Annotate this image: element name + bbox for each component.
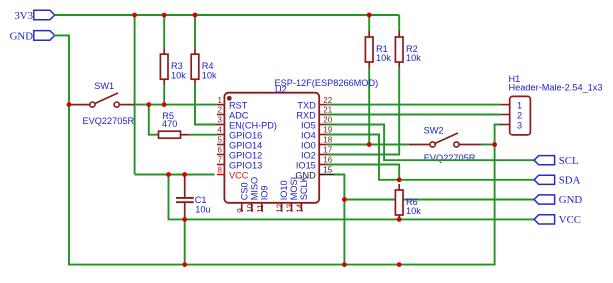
svg-text:9: 9 [236, 208, 245, 213]
wire 3V3 to VCC pin8 [135, 174, 215, 176]
svg-text:5: 5 [218, 136, 223, 145]
wire IO15 to SDA node [327, 165, 400, 180]
svg-text:GPIO16: GPIO16 [229, 130, 262, 140]
svg-text:11: 11 [256, 204, 265, 213]
port VCC [534, 214, 581, 226]
svg-text:RXD: RXD [296, 110, 316, 120]
svg-text:GPIO14: GPIO14 [229, 140, 262, 150]
wire SW1 to RST [135, 104, 217, 106]
svg-text:GPIO13: GPIO13 [229, 160, 262, 170]
wire GND flag to bottom rail [55, 35, 69, 264]
pin 19 IO4 [301, 126, 333, 141]
junction [342, 262, 347, 267]
pin 3 EN(CH-PD) [217, 116, 277, 131]
wire 3V3 rail [55, 14, 399, 16]
svg-text:3V3: 3V3 [14, 10, 33, 22]
junction [397, 262, 402, 267]
pin 22 TXD [297, 96, 332, 111]
wire R2 top [398, 15, 400, 31]
pin 4 GPIO16 [217, 126, 262, 141]
junction [397, 217, 402, 222]
svg-text:19: 19 [323, 126, 332, 135]
svg-text:470: 470 [162, 119, 177, 129]
svg-text:10u: 10u [195, 205, 210, 215]
port GND [534, 194, 582, 206]
junction [397, 177, 402, 182]
wire RXD to header pin2 [327, 114, 501, 116]
pin 7 GPIO13 [217, 156, 262, 171]
wire VCC row to VCC flag [169, 175, 535, 220]
svg-text:21: 21 [323, 106, 332, 115]
resistor R4 [191, 48, 217, 85]
svg-text:IO10: IO10 [279, 180, 289, 200]
svg-text:MISO: MISO [249, 177, 259, 200]
svg-text:TXD: TXD [297, 101, 316, 111]
svg-text:IO4: IO4 [301, 130, 316, 140]
switch SW1 [69, 81, 135, 126]
pin 9 CS0 [236, 182, 250, 212]
svg-text:3: 3 [517, 120, 522, 130]
header pin 3 [500, 120, 522, 130]
wire TXD to header pin1 [327, 104, 501, 106]
wire R1 bottom to IO0 [368, 68, 370, 145]
pin 6 GPIO12 [217, 146, 262, 161]
junction [367, 13, 372, 18]
junction [162, 13, 167, 18]
wire C1 node to bottom rail [184, 219, 186, 264]
pin 13 MOSI [286, 177, 300, 213]
pin 15 GND [295, 166, 332, 181]
svg-text:VCC: VCC [559, 214, 581, 226]
wire R2 bottom to IO2 [327, 68, 400, 155]
junction [342, 197, 347, 202]
wire bottom GND rail [69, 264, 495, 266]
wire R5 to GPIO16 [190, 134, 217, 136]
pin 11 IO9 [256, 185, 270, 212]
svg-text:20: 20 [323, 116, 332, 125]
wire IO4 to SDA [327, 135, 535, 180]
svg-text:10: 10 [246, 203, 255, 212]
svg-text:10k: 10k [406, 53, 421, 63]
svg-text:CS0: CS0 [239, 182, 249, 200]
svg-text:SCL: SCL [559, 155, 579, 167]
svg-text:10k: 10k [171, 70, 186, 80]
svg-text:IO5: IO5 [301, 120, 316, 130]
junction [67, 102, 72, 107]
connector H1 Header-Male-2.54_1x3 [509, 74, 603, 135]
svg-text:17: 17 [323, 146, 332, 155]
pin 21 RXD [296, 106, 332, 121]
op-amp U2 ESP-12F body [224, 78, 378, 203]
port GND [10, 30, 55, 42]
svg-text:15: 15 [323, 166, 332, 175]
wire R4 bottom to EN(CH-PD) [195, 85, 217, 124]
svg-text:14: 14 [296, 203, 305, 212]
svg-text:GND: GND [10, 30, 34, 42]
svg-text:10k: 10k [202, 70, 217, 80]
pin 2 ADC [217, 106, 249, 121]
svg-text:IO0: IO0 [301, 140, 316, 150]
svg-text:GND: GND [559, 194, 583, 206]
svg-text:22: 22 [323, 96, 332, 105]
svg-text:SDA: SDA [559, 175, 581, 187]
wire GND node to header pin3 [495, 125, 501, 265]
resistor R1 [365, 31, 391, 68]
switch SW2 [409, 126, 481, 164]
header pin 1 [500, 101, 522, 111]
junction [146, 102, 151, 107]
svg-text:2: 2 [517, 110, 522, 120]
wire RST to R5 [149, 105, 159, 135]
junction [182, 172, 187, 177]
svg-text:EVQ22705R: EVQ22705R [424, 153, 476, 163]
svg-text:IO15: IO15 [296, 160, 316, 170]
svg-text:13: 13 [286, 203, 295, 212]
svg-text:ESP-12F(ESP8266MOD): ESP-12F(ESP8266MOD) [275, 78, 379, 88]
junction [166, 172, 171, 177]
wire R3 top [163, 15, 165, 48]
resistor R5 470 [159, 111, 190, 138]
pin 18 IO0 [301, 136, 333, 151]
junction [182, 217, 187, 222]
svg-text:IO9: IO9 [259, 185, 269, 200]
svg-text:10k: 10k [406, 206, 421, 216]
svg-text:EVQ22705R: EVQ22705R [83, 116, 135, 126]
svg-text:RST: RST [229, 101, 248, 111]
wire R3 bottom to RST [163, 85, 165, 104]
pin 10 MISO [246, 177, 260, 213]
svg-text:10k: 10k [376, 53, 391, 63]
svg-text:VCC: VCC [229, 170, 249, 180]
svg-text:7: 7 [218, 156, 223, 165]
svg-text:6: 6 [218, 146, 223, 155]
port SDA [534, 175, 581, 187]
pin 1 RST [217, 96, 248, 111]
port 3V3 [14, 10, 54, 22]
wire 3V3 drop to VCC pin [134, 15, 136, 175]
svg-text:3: 3 [218, 116, 223, 125]
pin 8 VCC [217, 166, 249, 181]
pin 16 IO15 [296, 156, 333, 171]
wire SW2 to GND node [481, 144, 495, 146]
wire GND pin to bottom rail [335, 175, 344, 265]
svg-text:16: 16 [323, 156, 332, 165]
junction [193, 13, 198, 18]
junction [367, 142, 372, 147]
svg-text:4: 4 [218, 126, 223, 135]
svg-text:2: 2 [218, 106, 223, 115]
wire IO5 to SCL [327, 125, 535, 161]
pin 12 IO10 [276, 180, 290, 212]
svg-text:Header-Male-2.54_1x3: Header-Male-2.54_1x3 [509, 83, 603, 93]
svg-text:12: 12 [276, 203, 285, 212]
pin 17 IO2 [301, 146, 333, 161]
svg-text:SCLK: SCLK [299, 175, 309, 200]
svg-text:1: 1 [218, 96, 223, 105]
junction [162, 102, 167, 107]
pin 14 SCLK [296, 175, 310, 212]
wire GND pin stub ext [327, 174, 336, 176]
svg-text:1: 1 [517, 101, 522, 111]
svg-text:18: 18 [323, 136, 332, 145]
wire GND row to GND flag [344, 199, 534, 201]
pin 5 GPIO14 [217, 136, 262, 151]
header pin 2 [500, 110, 522, 120]
svg-text:ADC: ADC [229, 110, 249, 120]
pin 20 IO5 [301, 116, 333, 131]
junction [132, 13, 137, 18]
resistor R6 [395, 184, 421, 221]
svg-text:GPIO12: GPIO12 [229, 150, 262, 160]
wire R4 top [194, 15, 196, 48]
svg-text:U2: U2 [275, 85, 287, 95]
wire R1 top [368, 15, 370, 31]
svg-text:IO2: IO2 [301, 150, 316, 160]
svg-text:SW2: SW2 [424, 126, 444, 136]
wire IO0 to SW2 [327, 144, 409, 146]
svg-text:8: 8 [218, 166, 223, 175]
svg-text:MOSI: MOSI [289, 177, 299, 200]
capacitor C1 10u [176, 175, 211, 220]
junction [492, 142, 497, 147]
svg-text:SW1: SW1 [94, 81, 114, 91]
svg-text:EN(CH-PD): EN(CH-PD) [229, 120, 277, 130]
resistor R3 [160, 48, 186, 85]
resistor R2 [395, 31, 421, 68]
junction [182, 262, 187, 267]
port SCL [534, 155, 579, 167]
